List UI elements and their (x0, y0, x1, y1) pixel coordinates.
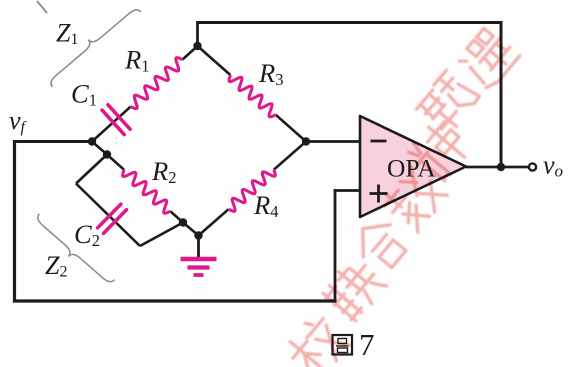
node T junction (193, 42, 201, 50)
watermark char 2 (320, 255, 388, 323)
watermark char 5 (405, 115, 474, 184)
resistor R1 (131, 58, 183, 109)
wire R2 to node A (170, 211, 183, 222)
wire C2 corner to node A (140, 223, 183, 247)
Z1 brace (51, 10, 141, 87)
node L1 junction (88, 137, 96, 145)
watermark char 6 (415, 69, 481, 136)
wire top node stub (196, 23, 199, 47)
wire L2 to R2 (107, 155, 124, 170)
wire node A to node B (183, 223, 199, 236)
wire R4 to node M (274, 142, 306, 170)
Z2 brace (38, 214, 115, 282)
wire R3 to node M (276, 115, 306, 142)
wire node M to minus input (306, 140, 360, 143)
op-amp plus input label (370, 192, 388, 195)
wire output (466, 166, 529, 169)
wire node L1 to L2 (92, 142, 107, 155)
resistor R3 (229, 75, 276, 117)
wire R1 to top node (182, 46, 197, 60)
wire left vertical (13, 140, 16, 303)
caption figure glyph (333, 335, 353, 355)
resistor R2 (123, 170, 171, 214)
output terminal circle (529, 163, 536, 170)
op-amp minus input label (371, 140, 387, 143)
watermark char 1 (283, 311, 354, 367)
wire top horizontal (196, 21, 501, 24)
wire plus feedback horizontal (334, 189, 360, 192)
node M junction (302, 137, 310, 145)
watermark char 3 (349, 213, 412, 275)
ground (181, 257, 217, 262)
node B junction (194, 231, 202, 239)
watermark char 4 (379, 164, 448, 233)
capacitor C1 (102, 110, 124, 135)
wire L1 to C1 branch (92, 107, 131, 142)
watermark char 7 (456, 26, 521, 91)
wire right vertical (500, 21, 503, 167)
wire C2 branch diagonal (76, 184, 140, 247)
node A junction (179, 218, 187, 226)
wire L2 to C2 corner (76, 155, 107, 184)
wire vf horizontal (13, 140, 92, 143)
resistor R4 (229, 170, 276, 212)
capacitor C2 (98, 204, 121, 228)
wire top node to R3 (198, 46, 231, 75)
node output junction (497, 163, 505, 171)
node L2 junction (103, 150, 111, 158)
stray mark top left (37, 1, 47, 13)
op-amp U1 OPA (360, 116, 466, 217)
wire bottom horizontal (13, 299, 337, 302)
wire node B to R4 (199, 209, 229, 235)
svg-text:7: 7 (359, 327, 375, 362)
wire ground stem (197, 236, 200, 258)
wire plus feedback vertical (334, 189, 337, 302)
